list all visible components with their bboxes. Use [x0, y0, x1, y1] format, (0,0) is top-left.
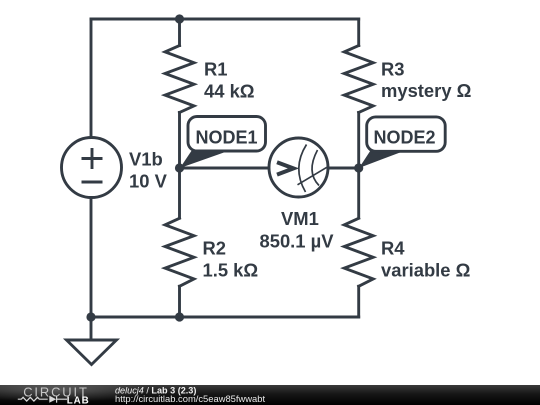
label R4 value: [381, 238, 470, 281]
node NODE2 flag: [359, 117, 445, 168]
svg-text:R3: R3: [381, 59, 405, 80]
wire mid left (node1 to voltmeter): [180, 167, 270, 170]
svg-text:1.5 kΩ: 1.5 kΩ: [203, 260, 259, 281]
svg-text:LAB: LAB: [67, 396, 90, 405]
wire R4 bottom stub: [357, 286, 360, 317]
junction bottom left: [86, 312, 95, 321]
label VM1 value: [260, 208, 335, 252]
resistor R2: [165, 218, 194, 286]
ground: [67, 340, 117, 365]
label R2 value: [203, 238, 259, 281]
wire between R1 and R2: [178, 113, 181, 219]
junction node A (NODE1): [175, 163, 184, 172]
wire bottom rail: [91, 316, 359, 319]
svg-text:44 kΩ: 44 kΩ: [204, 81, 255, 102]
svg-text:R2: R2: [203, 238, 227, 259]
svg-text:V1b: V1b: [129, 149, 163, 170]
CircuitLab logo resistor-diode glyph: [18, 396, 67, 403]
svg-text:R1: R1: [204, 59, 228, 80]
wire ground stem: [90, 317, 93, 340]
junction bottom mid: [175, 312, 184, 321]
resistor R1: [165, 46, 194, 113]
label R3 value: [381, 59, 471, 102]
wire top rail: [91, 18, 359, 21]
svg-text:VM1: VM1: [281, 208, 319, 229]
voltmeter VM1: [269, 138, 328, 197]
svg-text:variable Ω: variable Ω: [381, 260, 470, 281]
wire left branch upper: [90, 19, 93, 138]
svg-text:mystery Ω: mystery Ω: [381, 80, 471, 101]
wire R1 top stub: [178, 19, 181, 46]
wire R3 top stub: [357, 19, 360, 46]
svg-text:NODE2: NODE2: [374, 128, 436, 148]
node NODE1 flag: [180, 117, 266, 169]
svg-text:http://circuitlab.com/c5eaw85f: http://circuitlab.com/c5eaw85fwwabt: [115, 393, 265, 404]
svg-text:10 V: 10 V: [129, 171, 168, 192]
wire R2 bottom stub: [178, 286, 181, 317]
svg-text:NODE1: NODE1: [196, 128, 258, 148]
label R1 value: [204, 59, 255, 102]
junction node B (NODE2): [354, 163, 363, 172]
wire mid right (voltmeter to node2): [328, 167, 359, 170]
resistor R4: [344, 218, 373, 286]
label V1b value: [129, 149, 168, 192]
wire between R3 and R4: [357, 113, 360, 219]
wire left branch lower: [90, 197, 93, 317]
junction dot top: [175, 14, 184, 23]
svg-text:850.1 µV: 850.1 µV: [260, 231, 335, 252]
resistor R3: [344, 46, 373, 113]
voltage source V1b: [62, 138, 122, 198]
svg-text:R4: R4: [381, 238, 405, 259]
